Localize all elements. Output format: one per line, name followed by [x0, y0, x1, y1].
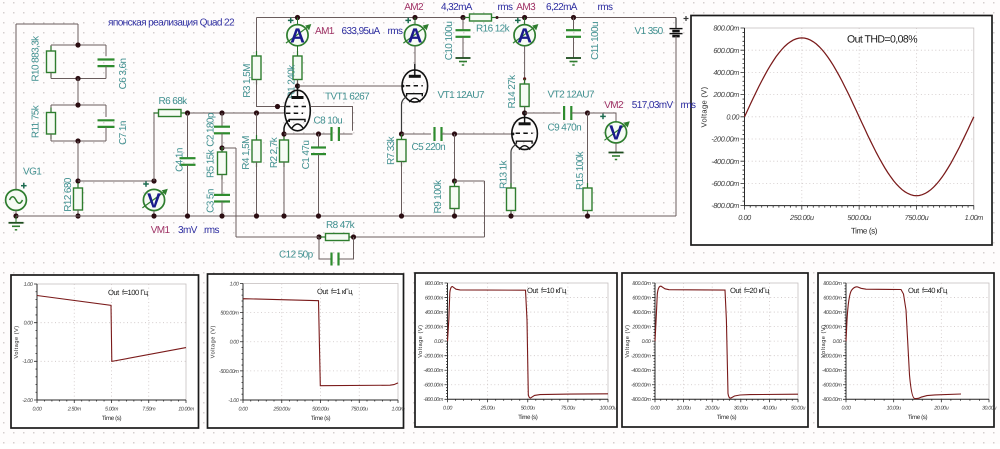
svg-text:R7 33k: R7 33k — [386, 135, 397, 165]
wire divider to R12 — [77, 141, 79, 181]
wire grid line g1 — [186, 112, 285, 114]
resistor R8 — [321, 234, 355, 241]
node R13-ground junction — [508, 213, 513, 218]
svg-text:600.00m: 600.00m — [425, 295, 444, 301]
wire C6 top — [78, 44, 106, 46]
resistor R15 — [583, 183, 592, 216]
svg-text:-2.00: -2.00 — [22, 398, 33, 404]
svg-text:6,22mA: 6,22mA — [546, 2, 578, 13]
svg-text:AM2: AM2 — [404, 2, 424, 13]
wire to divider top — [77, 24, 79, 45]
svg-text:-500.00m: -500.00m — [219, 369, 239, 375]
capacitor C6 — [98, 60, 115, 67]
wire R10 bottom lead — [50, 73, 52, 79]
ground at VG1 — [9, 223, 24, 230]
svg-text:0.00: 0.00 — [230, 340, 239, 346]
resistor R6 — [154, 110, 187, 117]
capacitor C1 — [311, 148, 326, 155]
svg-text:Voltage (V): Voltage (V) — [13, 325, 20, 358]
node AM3 rail junction — [522, 15, 527, 20]
svg-text:0.00: 0.00 — [239, 406, 248, 412]
svg-text:rms: rms — [498, 2, 513, 13]
svg-text:0.00: 0.00 — [651, 406, 660, 412]
wire R11 top — [51, 104, 78, 106]
plot square-1kHz axes — [243, 284, 398, 401]
svg-text:800.00m: 800.00m — [632, 281, 651, 287]
svg-text:0.00: 0.00 — [434, 339, 443, 345]
wire R7 bottom — [401, 162, 403, 217]
svg-text:200.00m: 200.00m — [712, 90, 739, 99]
svg-text:V1 350: V1 350 — [635, 26, 664, 37]
svg-text:R3 1,5M: R3 1,5M — [242, 64, 253, 98]
svg-text:20.00u: 20.00u — [704, 406, 719, 412]
svg-text:4,32mA: 4,32mA — [441, 2, 473, 13]
svg-text:Out f=100 Гц: Out f=100 Гц — [108, 288, 149, 297]
wire R11 top lead — [50, 105, 52, 113]
wire C1 bottom stub — [318, 154, 320, 216]
node screen junction — [275, 104, 280, 109]
node C3-ground junction — [219, 213, 224, 218]
wire AM1 top stub — [297, 18, 299, 25]
tube VT2 triode — [512, 111, 538, 149]
svg-text:C12 50p: C12 50p — [279, 250, 314, 261]
wire screen right side — [310, 107, 352, 131]
svg-text:-800.00m: -800.00m — [822, 397, 842, 403]
node divider mid junction 2 — [75, 102, 80, 107]
svg-text:0.00: 0.00 — [738, 213, 751, 222]
node R12 top junction — [75, 178, 80, 183]
svg-text:250.00u: 250.00u — [272, 406, 290, 412]
source VG1 — [6, 183, 27, 211]
wire R11 bottom lead — [50, 134, 52, 141]
svg-text:VT2 12AU7: VT2 12AU7 — [548, 89, 595, 100]
node C1 top junction — [316, 131, 321, 136]
svg-text:C9 470n: C9 470n — [548, 123, 582, 134]
svg-text:30.00u: 30.00u — [734, 406, 748, 412]
svg-text:-800.00m: -800.00m — [631, 397, 651, 403]
svg-text:600.00m: 600.00m — [632, 295, 651, 301]
ammeter AM1 — [286, 18, 311, 48]
wire C1 top stub — [318, 134, 320, 148]
ground at VM2 — [609, 153, 624, 160]
wire R12 node to VM1 — [78, 180, 154, 182]
svg-text:rms: rms — [598, 2, 613, 13]
wire C11 bottom stub — [573, 37, 575, 58]
node R4 grid junction — [254, 110, 259, 115]
plot square-10kHz axes — [448, 283, 609, 399]
node output junction — [585, 110, 590, 115]
wire down to R9 — [454, 134, 456, 181]
svg-text:Voltage (V): Voltage (V) — [700, 86, 709, 127]
svg-text:A: A — [290, 25, 305, 48]
plot square-100Hz frame — [11, 275, 199, 428]
plot square-100Hz axes — [37, 284, 186, 400]
node R8 right junction — [351, 234, 356, 239]
ground at C10 — [456, 58, 471, 65]
svg-text:200.00m: 200.00m — [424, 325, 444, 331]
svg-text:V: V — [147, 189, 161, 212]
capacitor C5 — [435, 127, 442, 141]
svg-text:2.50m: 2.50m — [67, 406, 82, 412]
svg-text:500.00u: 500.00u — [847, 213, 871, 222]
resistor R3 — [252, 51, 261, 85]
wire input-loop top — [16, 23, 78, 25]
wire R7 top — [401, 134, 403, 140]
wire feedback bottom horizontal — [354, 236, 485, 238]
svg-text:C1 47u: C1 47u — [301, 141, 312, 170]
node C1-ground junction — [316, 213, 321, 218]
svg-text:0.00: 0.00 — [33, 406, 42, 412]
svg-text:40.00u: 40.00u — [762, 406, 776, 412]
svg-text:R15 100k: R15 100k — [575, 150, 586, 190]
svg-text:Voltage (V): Voltage (V) — [210, 325, 217, 358]
node TVT1 cathode junction — [281, 131, 286, 136]
svg-text:Voltage (V): Voltage (V) — [820, 325, 827, 358]
wire AM3 top stub — [524, 18, 526, 25]
wire R12 bottom lead — [77, 210, 79, 216]
capacitor C4 — [180, 158, 196, 165]
plot square-100Hz curve — [37, 296, 186, 362]
wire TVT1 plate to VT1 grid — [298, 85, 403, 87]
svg-text:-200.00m: -200.00m — [423, 354, 443, 360]
svg-text:800.00m: 800.00m — [425, 281, 444, 287]
svg-text:R4 1,5M: R4 1,5M — [241, 136, 252, 170]
capacitor C10 — [456, 30, 471, 37]
svg-text:1.00m: 1.00m — [392, 406, 406, 412]
wire C7 bottom — [78, 140, 106, 142]
svg-text:rms: rms — [681, 100, 696, 111]
wire R4 top — [256, 113, 258, 140]
svg-text:-200.00m: -200.00m — [631, 354, 651, 360]
wire ground rail — [16, 215, 676, 217]
node R9 top net junction — [452, 131, 457, 136]
wire AM2 top stub — [414, 18, 416, 25]
node VT2 plate junction — [522, 110, 527, 115]
svg-text:-1.00: -1.00 — [228, 398, 239, 404]
wire C2 top stub — [221, 113, 223, 127]
resistor R4 — [252, 135, 261, 167]
capacitor C9 — [564, 106, 571, 120]
resistor R1 — [293, 51, 302, 85]
svg-text:400.00m: 400.00m — [713, 68, 739, 77]
wire R2 top — [283, 134, 285, 140]
node divider top junction — [75, 42, 80, 47]
wire AM2 to VT1 plate — [414, 46, 416, 64]
node VM1 top junction — [151, 178, 156, 183]
wire R11 bottom — [51, 140, 78, 142]
wire ground stub — [15, 216, 17, 223]
svg-text:-600.00m: -600.00m — [423, 383, 443, 389]
svg-text:AM3: AM3 — [516, 2, 536, 13]
node C4 top junction — [185, 110, 190, 115]
ammeter AM3 — [513, 18, 538, 48]
svg-text:500.00u: 500.00u — [312, 406, 329, 412]
wire battery negative to rail — [675, 36, 677, 216]
resistor R11 — [47, 108, 56, 140]
ammeter AM2 — [403, 18, 428, 48]
svg-text:-400.00m: -400.00m — [822, 368, 842, 374]
svg-text:-400.00m: -400.00m — [711, 157, 739, 166]
wire feedback right vertical — [484, 181, 486, 237]
svg-text:-600.00m: -600.00m — [822, 383, 842, 389]
plot square-40kHz frame — [818, 273, 994, 427]
svg-text:75.00u: 75.00u — [561, 406, 575, 412]
resistor R16 — [465, 14, 497, 21]
svg-text:-600.00m: -600.00m — [631, 383, 651, 389]
svg-text:Out f=10 кГц: Out f=10 кГц — [527, 286, 567, 295]
svg-text:C8 10u: C8 10u — [314, 116, 343, 127]
svg-text:500.00m: 500.00m — [220, 311, 239, 317]
wire C4 bottom stub — [187, 165, 189, 216]
node C4-ground junction — [185, 213, 190, 218]
wire C6 top stub — [105, 45, 107, 56]
svg-text:400.00m: 400.00m — [425, 310, 444, 316]
svg-text:R5 15k: R5 15k — [206, 148, 217, 178]
plot square-10kHz curve — [448, 287, 609, 398]
resistor R9 — [450, 182, 459, 214]
capacitor C7 — [98, 120, 115, 127]
wire C12 left stub — [319, 237, 331, 259]
wire VM1 bottom — [153, 211, 155, 216]
wire C7 bottom stub — [105, 127, 107, 141]
wire R2 bottom — [283, 162, 285, 216]
svg-text:Out f=1 кГц: Out f=1 кГц — [317, 287, 353, 296]
wire output to VM2 — [588, 113, 617, 122]
wire AM3 to R14 — [524, 46, 526, 79]
resistor R5 — [218, 147, 227, 180]
pin VT1 grid — [402, 85, 405, 88]
plot square-40kHz curve — [846, 287, 961, 399]
node junction VG1-ground — [13, 213, 18, 218]
plot THD sine curve — [745, 38, 974, 196]
svg-text:VT1 12AU7: VT1 12AU7 — [438, 90, 485, 101]
svg-text:Time (s): Time (s) — [518, 414, 538, 421]
wire R5 to C3 — [221, 175, 223, 195]
svg-text:VG1: VG1 — [23, 167, 42, 178]
node R4-ground junction — [254, 213, 259, 218]
plot square-1kHz frame — [208, 274, 404, 428]
plot square-10kHz frame — [415, 273, 617, 427]
pin R14 top — [523, 77, 526, 80]
plot square-20kHz frame — [622, 273, 808, 427]
svg-text:1.00: 1.00 — [230, 281, 239, 287]
svg-text:100.00u: 100.00u — [600, 406, 617, 412]
svg-text:-800.00m: -800.00m — [423, 397, 443, 403]
wire R10 bottom — [51, 78, 78, 80]
wire feedback vertical — [235, 148, 237, 237]
wire R1 bottom lead — [297, 80, 299, 88]
svg-text:AM1: AM1 — [315, 26, 335, 37]
voltmeter VM1 — [142, 181, 167, 212]
svg-text:10.00m: 10.00m — [178, 406, 194, 412]
capacitor C2 — [214, 127, 230, 134]
node R7-ground junction — [399, 213, 404, 218]
wire VG1 to ground rail — [15, 210, 17, 216]
svg-text:517,03mV: 517,03mV — [632, 100, 674, 111]
svg-text:C11 100u: C11 100u — [590, 22, 601, 60]
svg-text:японская реализация Quad 22: японская реализация Quad 22 — [108, 18, 235, 29]
node C2 top junction — [219, 110, 224, 115]
svg-text:800.00m: 800.00m — [823, 281, 842, 287]
svg-text:200.00m: 200.00m — [631, 325, 651, 331]
svg-text:800.00m: 800.00m — [713, 24, 739, 33]
plot square-40kHz axes — [846, 283, 989, 399]
svg-text:R11 75k: R11 75k — [31, 104, 42, 138]
wire feedback top horizontal — [455, 180, 485, 182]
node R8 left junction — [316, 234, 321, 239]
node C10 rail junction — [460, 15, 465, 20]
plot square-20kHz curve — [655, 286, 798, 398]
svg-text:R10 883,3k: R10 883,3k — [31, 35, 42, 82]
svg-text:Time (s): Time (s) — [717, 414, 737, 421]
svg-text:R8 47k: R8 47k — [326, 220, 356, 231]
svg-text:250.00u: 250.00u — [789, 213, 814, 222]
node R15-ground junction — [585, 213, 590, 218]
svg-text:0.00: 0.00 — [833, 339, 842, 345]
svg-text:R2 2,7k: R2 2,7k — [269, 136, 280, 168]
wire R15 bottom — [587, 211, 589, 217]
plot square-1kHz curve — [243, 299, 398, 386]
capacitor C12 — [332, 253, 339, 266]
node feedback tap junction — [219, 145, 224, 150]
wire C6 bottom — [78, 78, 106, 80]
ground at C11 — [566, 58, 581, 65]
wire C6 bottom stub — [105, 66, 107, 78]
resistor R7 — [397, 135, 406, 167]
wire R9 bottom — [454, 209, 456, 217]
wire C2 to R5 — [221, 133, 223, 148]
svg-text:50.00u: 50.00u — [521, 406, 535, 412]
power rail B+ — [257, 17, 677, 19]
svg-text:600.00m: 600.00m — [713, 46, 739, 55]
svg-text:30.00u: 30.00u — [982, 406, 996, 412]
node TVT1 plate junction — [295, 83, 300, 88]
wire C10 bottom stub — [462, 37, 464, 58]
capacitor C8 — [332, 127, 339, 141]
resistor R14 — [520, 79, 529, 112]
pin R16 right — [496, 16, 499, 19]
svg-text:-400.00m: -400.00m — [423, 368, 443, 374]
svg-text:10.00u: 10.00u — [887, 406, 901, 412]
wire C9 left — [525, 112, 561, 114]
svg-text:5.00m: 5.00m — [105, 406, 119, 412]
wire R4 bottom — [256, 162, 258, 216]
svg-text:Out f=20 кГц: Out f=20 кГц — [730, 286, 770, 295]
svg-text:R1 240k: R1 240k — [287, 64, 298, 99]
svg-text:VM2: VM2 — [604, 100, 624, 111]
node R9-ground junction — [452, 213, 457, 218]
node AM2 rail junction — [412, 15, 417, 20]
node AM1 rail junction — [295, 15, 300, 20]
wire VM2 to ground — [615, 143, 617, 153]
svg-text:7.50m: 7.50m — [142, 406, 156, 412]
voltmeter VM2 — [600, 114, 630, 145]
resistor R13 — [507, 183, 516, 216]
wire C3 bottom stub — [221, 202, 223, 217]
svg-text:C4 1n: C4 1n — [175, 148, 186, 172]
svg-text:Voltage (V): Voltage (V) — [417, 325, 424, 358]
wire cathode line — [284, 133, 331, 135]
svg-text:C3 5n: C3 5n — [206, 189, 217, 213]
svg-text:3mV: 3mV — [178, 225, 198, 236]
wire C11 top stub — [573, 18, 575, 31]
svg-text:A: A — [408, 25, 423, 48]
svg-text:V: V — [609, 122, 623, 145]
node divider mid junction 1 — [75, 76, 80, 81]
svg-text:0.00: 0.00 — [842, 406, 851, 412]
svg-text:750.00u: 750.00u — [905, 213, 929, 222]
wire C10 top stub — [462, 18, 464, 31]
svg-text:0.00: 0.00 — [726, 112, 739, 121]
wire VT2 cathode exit — [511, 144, 516, 188]
svg-text:R12 680: R12 680 — [63, 177, 74, 212]
wire C9 right — [572, 112, 588, 114]
svg-text:rms: rms — [204, 225, 219, 236]
tube TVT1 pentode — [285, 84, 311, 131]
node VM1-ground junction — [151, 213, 156, 218]
wire R15 top — [587, 113, 589, 188]
svg-text:R13 1k: R13 1k — [499, 159, 510, 189]
wire C5 left — [402, 133, 432, 135]
wire C8 right stub — [339, 133, 353, 135]
wire TVT1 cathode exit — [284, 120, 289, 134]
wire C4 top stub — [187, 113, 189, 158]
svg-text:-800.00m: -800.00m — [711, 201, 739, 210]
svg-text:-600.00m: -600.00m — [711, 179, 739, 188]
wire divider middle — [77, 79, 79, 106]
wire C7 top stub — [105, 105, 107, 117]
svg-text:-200.00m: -200.00m — [711, 135, 739, 144]
wire C5 to VT2 grid — [442, 133, 512, 135]
wire feedback tap horizontal — [222, 147, 236, 149]
node VT1 cathode junction — [399, 131, 404, 136]
battery V1 — [670, 16, 689, 36]
resistor R10 — [47, 46, 56, 78]
plot THD main frame — [691, 16, 992, 246]
svg-text:0.00: 0.00 — [24, 321, 33, 327]
svg-text:0.00: 0.00 — [443, 406, 452, 412]
svg-text:1.00: 1.00 — [24, 282, 33, 288]
wire R3 to screen grid — [257, 80, 285, 107]
capacitor C11 — [566, 30, 581, 37]
svg-text:Time (s): Time (s) — [311, 415, 331, 422]
svg-text:TVT1 6267: TVT1 6267 — [325, 92, 370, 103]
wire R6 left vertical — [153, 113, 155, 181]
svg-text:25.00u: 25.00u — [480, 406, 495, 412]
svg-text:50.00u: 50.00u — [791, 406, 805, 412]
wire R10 top — [51, 44, 78, 46]
svg-text:R14 27k: R14 27k — [507, 74, 518, 109]
svg-text:C10 100u: C10 100u — [444, 22, 455, 61]
node divider bottom junction — [75, 138, 80, 143]
svg-text:400.00m: 400.00m — [823, 310, 842, 316]
svg-text:750.00u: 750.00u — [351, 406, 368, 412]
tube VT1 triode — [402, 64, 428, 102]
svg-text:R9 100k: R9 100k — [433, 179, 444, 214]
resistor R2 — [280, 135, 289, 167]
svg-text:400.00m: 400.00m — [632, 310, 651, 316]
svg-text:1.00m: 1.00m — [965, 213, 984, 222]
svg-text:C2 180p: C2 180p — [206, 112, 217, 147]
svg-text:Time (s): Time (s) — [908, 414, 928, 421]
node R12-ground junction — [75, 213, 80, 218]
wire AM1 to R1 — [297, 46, 299, 56]
svg-text:Time (s): Time (s) — [102, 415, 122, 422]
svg-text:rms: rms — [388, 26, 403, 37]
svg-text:Time (s): Time (s) — [851, 227, 878, 236]
svg-text:A: A — [517, 25, 532, 48]
svg-text:600.00m: 600.00m — [823, 295, 842, 301]
